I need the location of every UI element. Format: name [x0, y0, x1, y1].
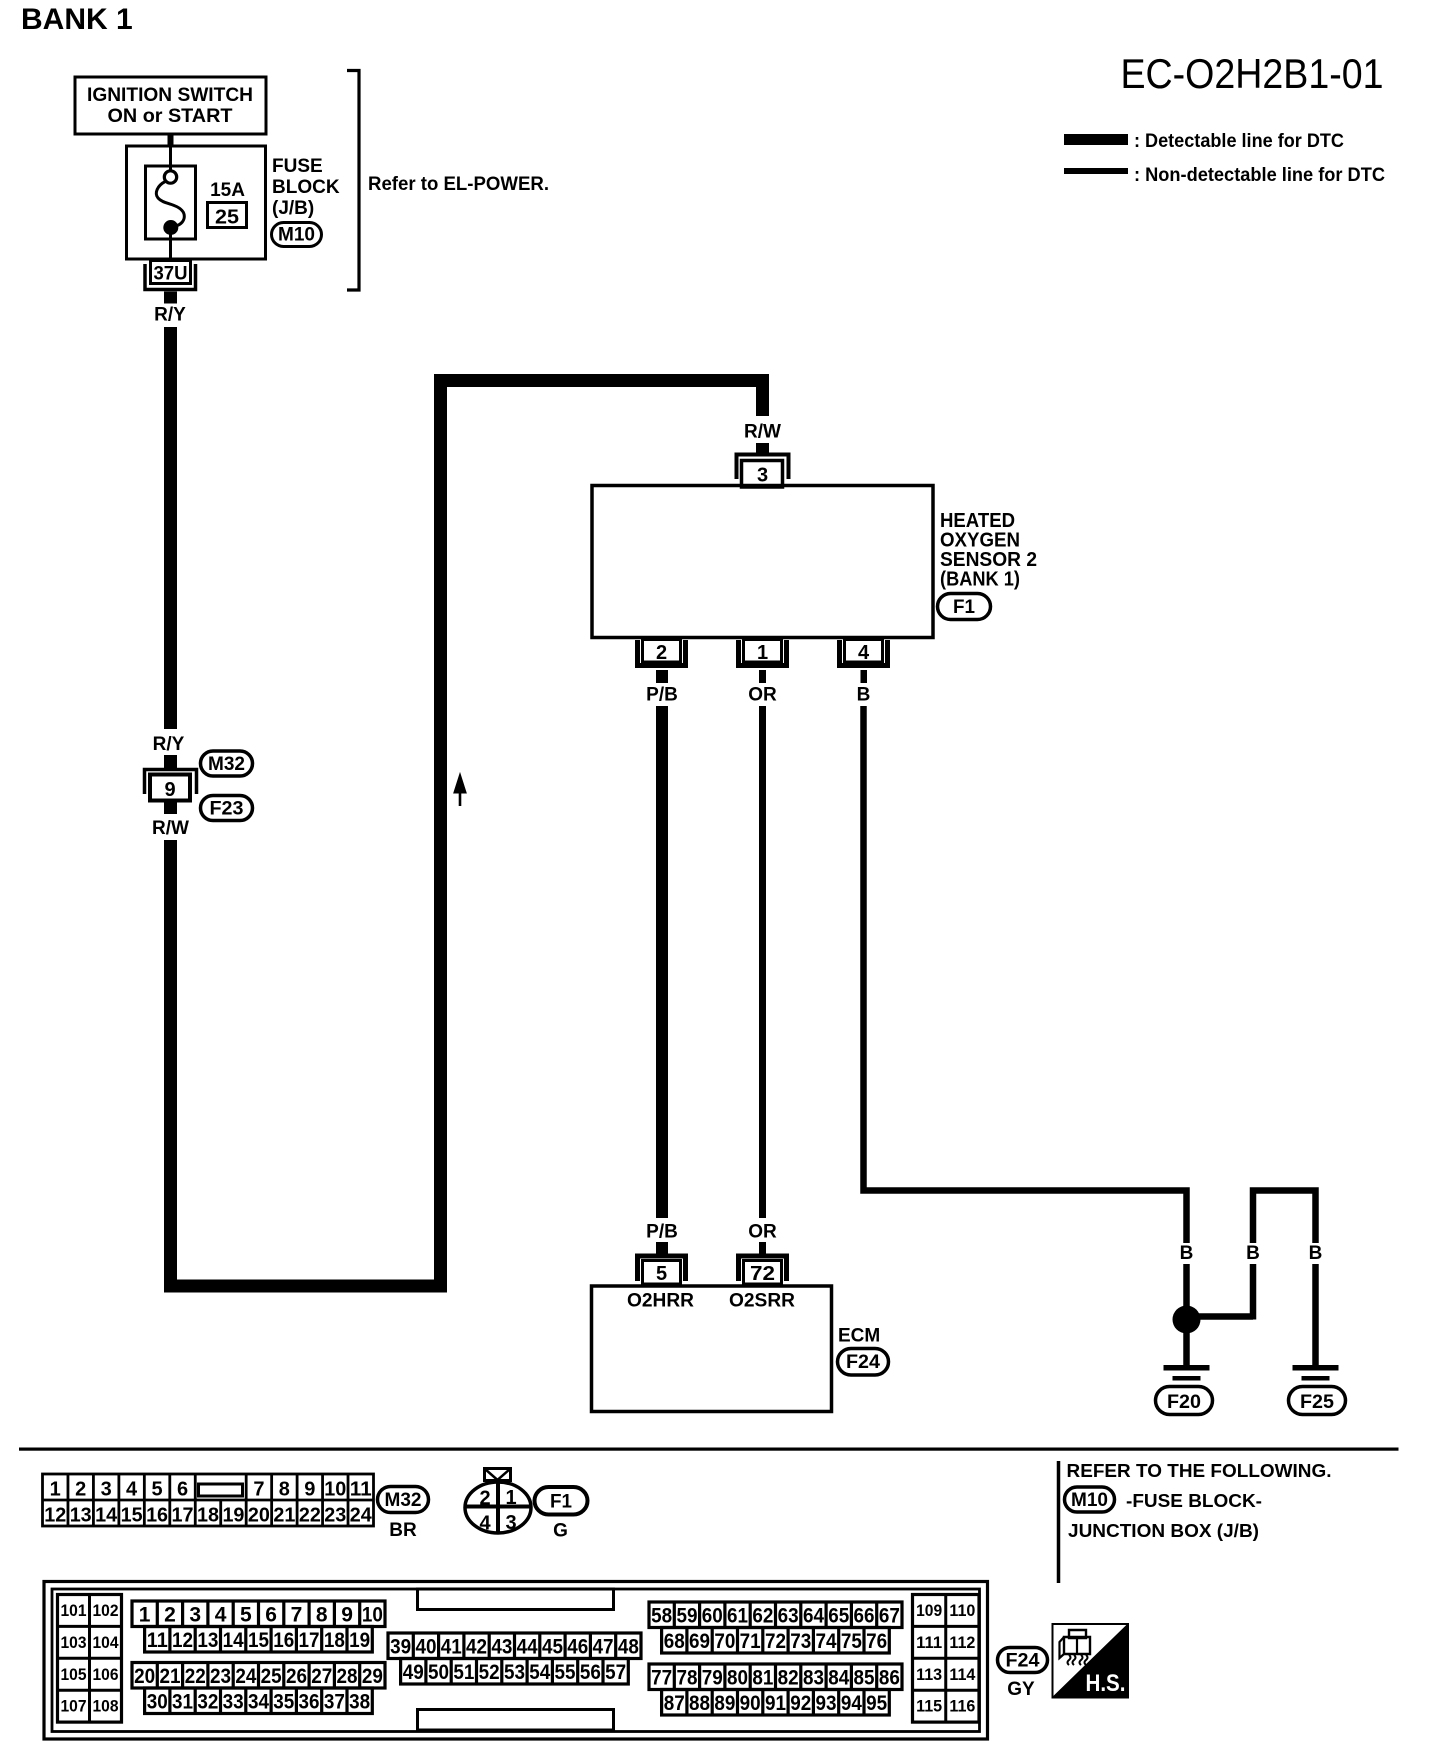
svg-text:54: 54: [529, 1661, 550, 1684]
connector oval M10: [272, 223, 322, 247]
svg-text:ECM: ECM: [838, 1326, 880, 1347]
wire dot to riser 2: [1190, 1313, 1253, 1320]
svg-text:R/Y: R/Y: [153, 734, 185, 755]
connector oval F1 face: [535, 1487, 588, 1515]
svg-text:1: 1: [757, 642, 768, 664]
svg-text:49: 49: [403, 1661, 424, 1684]
svg-text:90: 90: [740, 1692, 761, 1715]
svg-text:40: 40: [415, 1635, 436, 1658]
wire P/B vertical (detectable): [656, 706, 668, 1218]
svg-text:101: 101: [61, 1601, 87, 1620]
connector oval F24: [838, 1349, 889, 1376]
svg-text:75: 75: [841, 1630, 862, 1653]
connector bracket pin 5: [638, 1256, 686, 1281]
wire B to junction dot: [1183, 1264, 1190, 1306]
ECM right grid 109-116: [913, 1595, 980, 1723]
svg-text:16: 16: [146, 1505, 168, 1527]
svg-text:102: 102: [93, 1601, 119, 1620]
ECM pins 77-86: [649, 1664, 902, 1690]
svg-text:110: 110: [949, 1601, 975, 1620]
svg-text:48: 48: [618, 1635, 639, 1658]
svg-text:BLOCK: BLOCK: [272, 177, 340, 198]
svg-text:F20: F20: [1167, 1392, 1201, 1413]
connector oval F24 face: [998, 1648, 1048, 1673]
svg-text:76: 76: [866, 1630, 887, 1653]
svg-text:B: B: [1309, 1243, 1323, 1264]
svg-text:95: 95: [866, 1692, 887, 1715]
svg-text:4: 4: [126, 1479, 138, 1501]
svg-text:: Detectable line for DTC: : Detectable line for DTC: [1134, 131, 1344, 152]
svg-text:O2SRR: O2SRR: [729, 1291, 795, 1312]
svg-text:17: 17: [299, 1629, 320, 1652]
svg-text:1: 1: [505, 1487, 516, 1509]
wire riser 2 upper and top to riser 3: [1253, 1191, 1316, 1244]
svg-text:70: 70: [714, 1630, 735, 1653]
svg-text:OR: OR: [748, 1222, 777, 1243]
ground symbol F25: [1293, 1365, 1339, 1371]
svg-text:H.S.: H.S.: [1086, 1670, 1126, 1697]
svg-text:38: 38: [349, 1690, 370, 1713]
svg-text:7: 7: [253, 1479, 264, 1501]
wire into fuse: [169, 147, 172, 171]
connector oval F23: [201, 796, 253, 821]
svg-text:F1: F1: [550, 1492, 572, 1513]
svg-text:26: 26: [286, 1665, 307, 1688]
direction arrow up: [454, 774, 466, 794]
svg-text:42: 42: [466, 1635, 487, 1658]
H.S. logo connector icon: [1064, 1637, 1090, 1654]
svg-text:87: 87: [664, 1692, 685, 1715]
svg-text:(BANK 1): (BANK 1): [940, 569, 1020, 591]
svg-text:14: 14: [95, 1505, 118, 1527]
M32 key slot: [199, 1484, 243, 1496]
svg-text:91: 91: [765, 1692, 786, 1715]
svg-text:10: 10: [362, 1603, 383, 1626]
ECM pins 39-48: [388, 1633, 641, 1659]
connector face ECM outer: [44, 1582, 988, 1740]
svg-text:106: 106: [93, 1665, 119, 1684]
wire stub ignition to fuse block: [168, 134, 174, 147]
fuse 15A symbol: [164, 171, 176, 183]
svg-text:82: 82: [778, 1666, 799, 1689]
svg-text:22: 22: [185, 1665, 206, 1688]
svg-text:66: 66: [854, 1604, 875, 1627]
connector oval F1: [938, 594, 991, 620]
svg-text:72: 72: [765, 1630, 786, 1653]
wire fuse to 37U: [169, 234, 172, 262]
terminal box 37U: [151, 261, 191, 284]
connector bracket 9 top: [145, 770, 197, 795]
wire stub pin1: [759, 670, 766, 683]
svg-text:15: 15: [248, 1629, 269, 1652]
svg-text:68: 68: [664, 1630, 685, 1653]
svg-text:9: 9: [304, 1479, 315, 1501]
fuse block J/B box: [127, 146, 266, 259]
svg-text:2: 2: [75, 1479, 86, 1501]
svg-text:3: 3: [189, 1603, 201, 1626]
svg-text:8: 8: [316, 1603, 328, 1626]
svg-text:5: 5: [240, 1603, 252, 1626]
svg-text:14: 14: [223, 1629, 244, 1652]
connector face M32 grid: [43, 1474, 374, 1526]
svg-text:20: 20: [134, 1665, 155, 1688]
svg-text:7: 7: [291, 1603, 303, 1626]
svg-text:12: 12: [172, 1629, 193, 1652]
svg-text:JUNCTION BOX (J/B): JUNCTION BOX (J/B): [1068, 1520, 1259, 1541]
svg-text:BR: BR: [389, 1520, 417, 1541]
svg-text:R/W: R/W: [152, 818, 189, 839]
wire stub above pin 5: [656, 1242, 668, 1254]
svg-text:92: 92: [790, 1692, 811, 1715]
svg-text:51: 51: [453, 1661, 474, 1684]
svg-text:69: 69: [689, 1630, 710, 1653]
svg-text:20: 20: [248, 1505, 270, 1527]
svg-text:P/B: P/B: [646, 1222, 678, 1243]
svg-text:45: 45: [542, 1635, 563, 1658]
svg-text:4: 4: [858, 642, 870, 664]
connector bracket pin 4: [840, 640, 888, 666]
svg-text:REFER TO THE FOLLOWING.: REFER TO THE FOLLOWING.: [1067, 1460, 1332, 1481]
svg-text:B: B: [1246, 1243, 1260, 1264]
svg-text:30: 30: [147, 1690, 168, 1713]
svg-text:M10: M10: [1071, 1490, 1108, 1511]
svg-text:23: 23: [210, 1665, 231, 1688]
fuse symbol box: [146, 166, 196, 239]
svg-text:1: 1: [139, 1603, 151, 1626]
svg-text:35: 35: [273, 1690, 294, 1713]
svg-text:3: 3: [101, 1479, 112, 1501]
svg-text:16: 16: [273, 1629, 294, 1652]
svg-text:19: 19: [222, 1505, 244, 1527]
svg-text:25: 25: [215, 207, 239, 229]
svg-text:114: 114: [949, 1665, 976, 1684]
svg-text:21: 21: [273, 1505, 295, 1527]
ECM bottom key slot: [418, 1710, 614, 1731]
wire stub pin2: [656, 670, 668, 683]
svg-text:60: 60: [702, 1604, 723, 1627]
svg-text:EC-O2H2B1-01: EC-O2H2B1-01: [1121, 50, 1384, 97]
connector oval M32 face: [378, 1487, 429, 1513]
wire R/W detectable loop: [171, 381, 763, 1287]
separator line: [19, 1448, 1399, 1451]
svg-text:R/W: R/W: [744, 422, 781, 443]
svg-text:33: 33: [223, 1690, 244, 1713]
ECM pins 30-38: [145, 1688, 373, 1714]
svg-text:R/Y: R/Y: [154, 305, 186, 326]
svg-text:37: 37: [324, 1690, 345, 1713]
svg-text:32: 32: [197, 1690, 218, 1713]
svg-text:107: 107: [61, 1697, 87, 1716]
svg-text:72: 72: [750, 1263, 775, 1285]
svg-text:3: 3: [505, 1512, 516, 1534]
terminal box 5: [643, 1261, 681, 1285]
ECM pins 49-57: [401, 1659, 629, 1685]
wire stub pin4: [861, 670, 868, 683]
connector bracket pin 2: [638, 640, 686, 666]
legend thin bar: [1064, 168, 1128, 174]
svg-text:80: 80: [727, 1666, 748, 1689]
wire B to first ground riser: [864, 706, 1187, 1243]
svg-text:9: 9: [341, 1603, 353, 1626]
ECM pins 58-67: [649, 1602, 902, 1628]
svg-text:F1: F1: [953, 597, 975, 618]
svg-text:4: 4: [479, 1513, 491, 1535]
svg-text:67: 67: [879, 1604, 900, 1627]
fuse number box 25: [208, 203, 247, 228]
svg-text:1: 1: [50, 1479, 61, 1501]
svg-text:P/B: P/B: [646, 685, 678, 706]
terminal box 4: [845, 640, 883, 663]
svg-text:19: 19: [349, 1629, 370, 1652]
svg-text:37U: 37U: [154, 264, 188, 285]
svg-text:M32: M32: [385, 1490, 422, 1511]
svg-text:34: 34: [248, 1690, 269, 1713]
svg-text:B: B: [1180, 1243, 1194, 1264]
svg-text:GY: GY: [1007, 1679, 1035, 1700]
svg-text:BANK 1: BANK 1: [21, 3, 133, 36]
ground oval F20: [1156, 1387, 1213, 1415]
svg-text:Refer to EL-POWER.: Refer to EL-POWER.: [368, 174, 549, 195]
svg-text:2: 2: [164, 1603, 176, 1626]
svg-text:115: 115: [916, 1697, 942, 1716]
svg-text:111: 111: [916, 1633, 942, 1652]
svg-text:6: 6: [265, 1603, 277, 1626]
svg-text:27: 27: [311, 1665, 332, 1688]
svg-text:24: 24: [235, 1665, 256, 1688]
wire OR vertical: [759, 706, 766, 1218]
svg-text:85: 85: [854, 1666, 875, 1689]
svg-text:31: 31: [172, 1690, 193, 1713]
ECM pins 68-76: [662, 1628, 890, 1654]
svg-text:18: 18: [324, 1629, 345, 1652]
svg-text:-FUSE BLOCK-: -FUSE BLOCK-: [1126, 1490, 1262, 1511]
svg-text:52: 52: [479, 1661, 500, 1684]
svg-text:21: 21: [159, 1665, 180, 1688]
svg-text:113: 113: [916, 1665, 942, 1684]
heated oxygen sensor 2 box: [592, 486, 933, 638]
svg-text:ON or START: ON or START: [108, 106, 233, 127]
svg-text:81: 81: [752, 1666, 773, 1689]
svg-text:62: 62: [752, 1604, 773, 1627]
svg-text:F24: F24: [1006, 1651, 1040, 1672]
svg-text:116: 116: [949, 1697, 975, 1716]
terminal box 72: [744, 1261, 782, 1285]
svg-text:M32: M32: [208, 754, 245, 775]
ignition switch box: [75, 77, 266, 134]
svg-text:78: 78: [676, 1666, 697, 1689]
svg-text:: Non-detectable line for DTC: : Non-detectable line for DTC: [1134, 165, 1385, 186]
connector bracket pin 1: [739, 640, 787, 666]
svg-text:41: 41: [441, 1635, 462, 1658]
svg-text:(J/B): (J/B): [272, 198, 314, 219]
connector bracket pin 3: [737, 455, 789, 480]
svg-text:25: 25: [261, 1665, 282, 1688]
svg-text:93: 93: [816, 1692, 837, 1715]
wire stub above pin 3: [756, 443, 769, 454]
svg-text:36: 36: [299, 1690, 320, 1713]
svg-text:71: 71: [740, 1630, 761, 1653]
ground oval F25: [1289, 1387, 1346, 1415]
svg-text:105: 105: [61, 1665, 87, 1684]
svg-text:O2HRR: O2HRR: [627, 1291, 694, 1312]
svg-text:2: 2: [479, 1488, 490, 1510]
wire stub above connector 9: [164, 755, 177, 768]
thick wire stub below 37U: [164, 292, 177, 304]
svg-text:23: 23: [324, 1505, 346, 1527]
svg-text:F23: F23: [210, 799, 244, 820]
svg-text:5: 5: [152, 1479, 163, 1501]
wire stub above pin 72: [759, 1242, 766, 1254]
svg-text:84: 84: [828, 1666, 849, 1689]
svg-text:43: 43: [491, 1635, 512, 1658]
svg-text:64: 64: [803, 1604, 824, 1627]
svg-text:94: 94: [841, 1692, 862, 1715]
bracket refer: [347, 71, 359, 291]
svg-text:46: 46: [567, 1635, 588, 1658]
junction node dot: [1173, 1306, 1201, 1334]
svg-text:6: 6: [177, 1479, 188, 1501]
svg-text:108: 108: [93, 1697, 119, 1716]
svg-text:86: 86: [879, 1666, 900, 1689]
svg-text:74: 74: [816, 1630, 837, 1653]
svg-text:15: 15: [121, 1505, 143, 1527]
svg-text:29: 29: [362, 1665, 383, 1688]
ECM pins 87-95: [662, 1690, 890, 1716]
svg-text:47: 47: [593, 1635, 614, 1658]
terminal box 9: [150, 775, 190, 801]
svg-text:11: 11: [350, 1479, 372, 1501]
svg-text:8: 8: [279, 1479, 290, 1501]
svg-text:61: 61: [727, 1604, 748, 1627]
svg-text:FUSE: FUSE: [272, 156, 323, 177]
svg-text:F25: F25: [1300, 1392, 1334, 1413]
svg-text:F24: F24: [846, 1352, 880, 1373]
ground symbol F20: [1164, 1365, 1210, 1371]
svg-text:13: 13: [70, 1505, 92, 1527]
ECM pins 20-29: [132, 1663, 385, 1689]
svg-text:11: 11: [147, 1629, 168, 1652]
terminal box 1: [744, 640, 782, 663]
svg-text:3: 3: [757, 465, 768, 487]
connector bracket under 37U: [145, 264, 196, 290]
svg-text:50: 50: [428, 1661, 449, 1684]
ECM pins 11-19: [145, 1627, 373, 1653]
svg-text:OR: OR: [748, 685, 777, 706]
svg-text:39: 39: [390, 1635, 411, 1658]
wire riser 3 to ground F25: [1312, 1264, 1319, 1365]
svg-text:9: 9: [164, 779, 175, 801]
svg-text:10: 10: [324, 1479, 346, 1501]
connector bracket pin 72: [739, 1256, 787, 1281]
legend thick bar: [1064, 134, 1128, 145]
svg-text:56: 56: [580, 1661, 601, 1684]
svg-text:73: 73: [790, 1630, 811, 1653]
connector oval M32: [201, 751, 253, 776]
svg-text:103: 103: [61, 1633, 87, 1652]
svg-text:55: 55: [555, 1661, 576, 1684]
svg-text:12: 12: [44, 1505, 66, 1527]
svg-text:58: 58: [651, 1604, 672, 1627]
svg-text:59: 59: [676, 1604, 697, 1627]
H.S. logo: [1053, 1624, 1129, 1698]
wire R/Y vertical (detectable): [164, 327, 177, 729]
svg-text:G: G: [553, 1521, 568, 1542]
svg-text:57: 57: [605, 1661, 626, 1684]
svg-text:28: 28: [337, 1665, 358, 1688]
wire stub below connector 9: [164, 801, 177, 814]
svg-text:IGNITION SWITCH: IGNITION SWITCH: [87, 85, 253, 106]
refer panel divider: [1057, 1461, 1061, 1583]
svg-text:112: 112: [949, 1633, 975, 1652]
svg-text:22: 22: [299, 1505, 321, 1527]
svg-text:M10: M10: [278, 225, 315, 246]
svg-text:B: B: [857, 685, 871, 706]
terminal box 3: [742, 461, 783, 488]
svg-text:4: 4: [215, 1603, 227, 1626]
ECM top key slot: [418, 1589, 614, 1610]
svg-text:5: 5: [656, 1263, 667, 1285]
svg-text:79: 79: [702, 1666, 723, 1689]
svg-text:15A: 15A: [210, 180, 245, 201]
svg-text:109: 109: [916, 1601, 942, 1620]
svg-text:89: 89: [714, 1692, 735, 1715]
svg-text:63: 63: [778, 1604, 799, 1627]
F1 key tab: [485, 1469, 511, 1481]
svg-text:77: 77: [651, 1666, 672, 1689]
ECM pins 1-10: [132, 1601, 385, 1627]
terminal box 2: [643, 640, 681, 663]
wire dot to ground F20: [1183, 1332, 1190, 1365]
connector oval M10 refer: [1065, 1487, 1115, 1512]
svg-text:24: 24: [350, 1505, 373, 1527]
svg-text:2: 2: [656, 642, 667, 664]
svg-text:17: 17: [172, 1505, 194, 1527]
svg-text:18: 18: [197, 1505, 219, 1527]
svg-text:53: 53: [504, 1661, 525, 1684]
svg-text:83: 83: [803, 1666, 824, 1689]
ECM box: [592, 1286, 832, 1412]
svg-text:88: 88: [689, 1692, 710, 1715]
svg-text:65: 65: [828, 1604, 849, 1627]
ECM left grid 101-108: [58, 1595, 122, 1723]
svg-text:104: 104: [93, 1633, 119, 1652]
wire riser 2 lower: [1250, 1264, 1257, 1320]
svg-text:44: 44: [517, 1635, 538, 1658]
svg-text:13: 13: [197, 1629, 218, 1652]
